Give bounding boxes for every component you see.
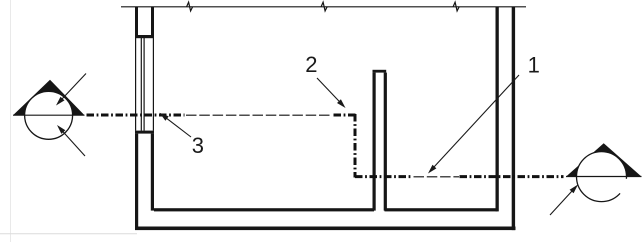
svg-text:3: 3	[192, 133, 204, 158]
svg-text:1: 1	[528, 52, 540, 77]
svg-text:2: 2	[305, 52, 317, 77]
